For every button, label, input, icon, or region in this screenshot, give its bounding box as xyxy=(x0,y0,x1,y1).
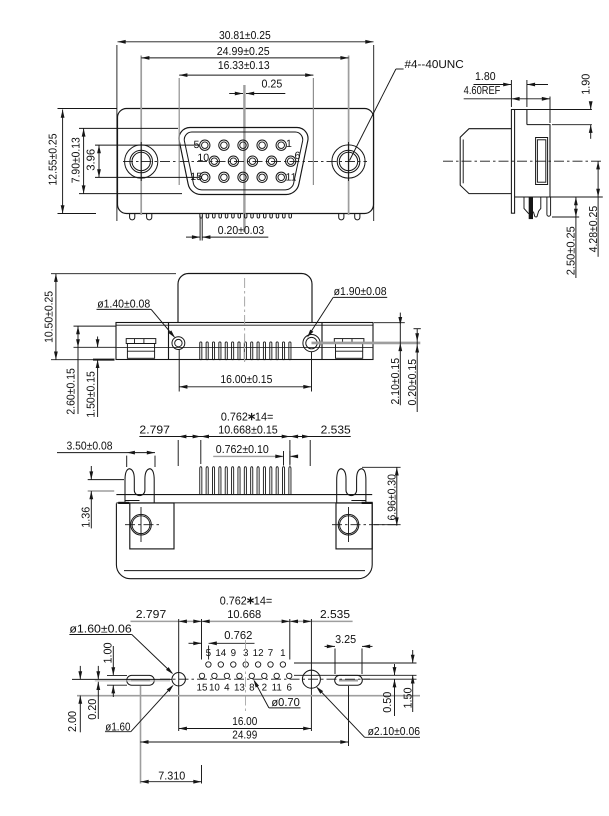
pin contact row1 #4 xyxy=(276,140,286,150)
svg-text:16.33±0.13: 16.33±0.13 xyxy=(218,60,270,72)
dimension 24.99±0.25 xyxy=(141,57,348,59)
pad numbers row 2 xyxy=(197,682,293,693)
dimension 16.00±0.15 xyxy=(179,386,311,388)
chained dimension line 2.797/10.668/2.535 (view 3) xyxy=(139,436,350,438)
side view wide contact pin outline xyxy=(524,197,541,217)
left block hole xyxy=(131,514,152,535)
svg-text:3.96: 3.96 xyxy=(86,149,98,171)
dimension 16.00 (view 4) xyxy=(179,728,312,730)
svg-text:1: 1 xyxy=(280,648,285,659)
svg-text:2: 2 xyxy=(262,682,267,693)
svg-text:7.310: 7.310 xyxy=(158,770,185,782)
gray extension line through left mounting hole (24.99 ref) xyxy=(140,56,142,216)
dimension 1.00 extension lines xyxy=(107,674,127,676)
svg-text:15: 15 xyxy=(197,682,208,693)
left mounting hole #4-40UNC xyxy=(125,145,158,178)
side view contact slot outer rectangle xyxy=(536,138,548,185)
dimension 1.50 (view 4) xyxy=(412,650,414,663)
right mounting hole #4-40UNC xyxy=(332,145,365,178)
dimension 2.50±0.25 extension lines xyxy=(550,196,603,198)
svg-text:0.20: 0.20 xyxy=(87,699,99,720)
top view shell stamped line xyxy=(116,346,373,348)
dimension 2.50±0.25 xyxy=(575,197,577,278)
svg-text:1.36: 1.36 xyxy=(80,507,92,528)
pin contact row2 #0 xyxy=(209,156,219,166)
dimension 1.90 xyxy=(590,102,592,110)
left mounting hole Ø1.60 (footprint) xyxy=(172,673,185,686)
dimension 2.10±0.15 xyxy=(399,313,401,406)
svg-text:30.81±0.25: 30.81±0.25 xyxy=(219,30,271,42)
top view hole Ø1.90 xyxy=(303,335,320,352)
svg-text:12.55±0.25: 12.55±0.25 xyxy=(48,134,60,186)
svg-text:10.50±0.25: 10.50±0.25 xyxy=(43,291,55,343)
dimension 10.50±0.25 extension lines xyxy=(51,273,176,275)
extension through right oval pad center xyxy=(348,686,350,746)
top view shell left stamped edge xyxy=(168,323,170,360)
svg-text:10: 10 xyxy=(209,682,220,693)
svg-text:ø0.70: ø0.70 xyxy=(271,697,299,709)
svg-text:14=: 14= xyxy=(255,411,274,423)
leader for Ø2.10±0.06 xyxy=(365,736,420,738)
extension lines for chained dims (view 3) xyxy=(177,440,179,466)
svg-text:16.00±0.15: 16.00±0.15 xyxy=(220,374,272,386)
svg-text:1.00: 1.00 xyxy=(102,643,114,664)
svg-text:6.96±0.30: 6.96±0.30 xyxy=(386,474,398,521)
svg-text:0.25: 0.25 xyxy=(262,78,283,90)
svg-text:16.00: 16.00 xyxy=(232,716,257,728)
svg-text:1.50: 1.50 xyxy=(403,688,415,709)
svg-text:6: 6 xyxy=(295,150,301,162)
svg-text:4.60REF: 4.60REF xyxy=(464,85,501,97)
side view shell top tab xyxy=(515,110,527,125)
svg-text:9: 9 xyxy=(231,648,236,659)
svg-text:#4--40UNC: #4--40UNC xyxy=(405,59,464,71)
bottom view right block xyxy=(336,503,372,549)
leader for Ø1.60±0.06 xyxy=(69,634,131,636)
left board lock wing (fork) xyxy=(125,469,154,503)
svg-text:2.797: 2.797 xyxy=(139,425,170,437)
dimension 1.50±0.15 xyxy=(97,337,99,348)
front view solder tail comb (15 tails) xyxy=(200,214,292,219)
bottom view solder tail comb (15 tails) xyxy=(200,467,291,495)
chained dimension line 2.797/10.668/2.535 (view 4) xyxy=(131,620,353,622)
left block hole crosshair xyxy=(140,507,142,542)
svg-text:10.668±0.15: 10.668±0.15 xyxy=(218,425,278,437)
svg-text:ø1.90±0.08: ø1.90±0.08 xyxy=(334,286,387,298)
pin contact row1 #3 xyxy=(257,140,267,150)
svg-text:6: 6 xyxy=(286,682,292,693)
pin contact row1 #2 xyxy=(238,140,248,150)
left wing base weld marks xyxy=(118,502,129,504)
dimension 1.80 extension lines xyxy=(510,80,512,107)
extension line through left hole (view 4) xyxy=(178,619,180,731)
top view right board lock tab xyxy=(334,339,364,359)
dimension 4.28±0.25 dim line xyxy=(597,161,599,257)
dimension 6.96±0.30 xyxy=(396,467,398,525)
leader line for Ø1.40 xyxy=(97,308,152,310)
right mounting hole Ø2.10 (footprint) xyxy=(302,670,320,688)
extension line bottom pad row right xyxy=(294,674,417,676)
dimension 12.55±0.25 extension lines xyxy=(58,108,118,110)
svg-text:4: 4 xyxy=(224,682,230,693)
top view flange band inner top line xyxy=(116,324,373,326)
svg-text:8: 8 xyxy=(249,682,255,693)
svg-text:0.762: 0.762 xyxy=(224,630,252,642)
dimension 7.90±0.13 extension lines xyxy=(79,127,178,129)
leader for Ø1.60 xyxy=(105,731,131,733)
front view mounting hooks under body xyxy=(130,214,360,220)
dimension 7.310 xyxy=(141,781,202,783)
dimension 1.50±0.15 extension line xyxy=(93,335,110,337)
dimension 16.33±0.13 xyxy=(179,74,313,76)
dimension 3.25 extension lines xyxy=(334,649,336,675)
dimension 3.50±0.08 extension lines xyxy=(126,456,128,467)
left oval pad xyxy=(127,675,155,685)
dimension 0.20±0.03 xyxy=(186,236,200,238)
svg-text:24.99: 24.99 xyxy=(232,730,257,742)
gray extension through left oval pad center xyxy=(140,686,142,784)
dimension 0.50 xyxy=(394,664,396,675)
svg-text:2.535: 2.535 xyxy=(320,609,350,621)
leader line for Ø1.90 xyxy=(333,296,387,298)
svg-text:11: 11 xyxy=(286,171,297,183)
dimension 2.00 xyxy=(79,666,81,680)
pin contact row2 #1 xyxy=(228,156,238,166)
dimension 1.80 xyxy=(474,84,512,86)
svg-text:5: 5 xyxy=(206,648,212,659)
dimension 0.20 (view 4) xyxy=(97,666,99,680)
gray center line of D-shell insert xyxy=(243,85,245,232)
right oval pad gray core xyxy=(339,679,358,681)
bottom view body inner bottom line xyxy=(124,570,365,572)
svg-text:ø1.40±0.08: ø1.40±0.08 xyxy=(97,298,150,310)
bottom view flange face line xyxy=(116,494,372,496)
svg-text:0.762±0.10: 0.762±0.10 xyxy=(216,444,269,456)
svg-text:1.80: 1.80 xyxy=(475,71,496,83)
dimension 0.762 (view 4) xyxy=(189,642,202,644)
D-shell insert inner outline xyxy=(184,132,302,190)
pin contact row3 #1 xyxy=(219,172,229,182)
hole center line right segment xyxy=(362,678,417,680)
pin contact row2 #4 xyxy=(286,156,296,166)
pin contact row2 #2 xyxy=(247,156,257,166)
dimension 0.762±0.10 (pitch) xyxy=(213,455,283,457)
right oval pad xyxy=(335,675,363,685)
dimension 12.55±0.25 xyxy=(62,110,64,214)
dimension 3.25 xyxy=(325,645,336,647)
dimension 2.10±0.15 extension line xyxy=(374,322,405,324)
dimension 1.36 extension lines xyxy=(88,479,124,481)
svg-text:0.20±0.03: 0.20±0.03 xyxy=(218,225,264,237)
dimension 3.96 extension lines xyxy=(95,144,199,146)
extension line through right hole (view 4) xyxy=(310,619,312,731)
svg-text:1.90: 1.90 xyxy=(581,74,593,95)
side view insulator body xyxy=(515,125,550,197)
svg-text:0.50: 0.50 xyxy=(382,692,394,713)
pad numbers row 1 xyxy=(206,648,286,659)
right wing base weld marks xyxy=(362,502,373,504)
dimension 3.50±0.08 xyxy=(57,452,155,454)
svg-text:2.797: 2.797 xyxy=(136,609,167,621)
dimension 6.96±0.30 extension lines xyxy=(362,466,401,468)
vertical center line (view 4) xyxy=(245,640,247,713)
side view D-shell front face inner line xyxy=(462,140,464,184)
svg-text:24.99±0.25: 24.99±0.25 xyxy=(217,46,270,58)
pin contact row3 #0 xyxy=(200,172,210,182)
svg-text:11: 11 xyxy=(272,682,282,693)
pin contact row3 #4 xyxy=(276,172,286,182)
svg-text:12: 12 xyxy=(253,648,264,659)
right board lock wing (fork) xyxy=(337,469,366,503)
pin contact row2 #3 xyxy=(266,156,276,166)
svg-text:3: 3 xyxy=(243,648,249,659)
dimension 7.310 extension line xyxy=(201,765,203,784)
extension line pad column 1 xyxy=(201,619,203,660)
extension line top pad row right xyxy=(294,662,417,664)
dimension 7.90±0.13 xyxy=(83,128,85,193)
svg-text:ø2.10±0.06: ø2.10±0.06 xyxy=(368,726,420,738)
vertical center line left hole xyxy=(140,142,142,181)
top view vertical center line xyxy=(244,278,246,362)
side view D-shell barrel outline xyxy=(460,129,511,194)
extension line pad column 15 xyxy=(289,619,291,660)
side view right thin pin outline xyxy=(547,197,551,216)
side view flange plate xyxy=(511,110,514,214)
dimension 0.20±0.03 extension lines xyxy=(199,216,201,241)
svg-text:1.50±0.15: 1.50±0.15 xyxy=(85,371,97,418)
hole center line left segment xyxy=(72,678,172,680)
hole center line dash-dot xyxy=(160,678,370,680)
dimension 0.20±0.15 extension tick xyxy=(414,328,421,330)
gray reference line (2.00 ref) xyxy=(77,695,420,697)
dimension 0.25 (insert offset) xyxy=(229,93,243,95)
dimension 1.90 extension lines xyxy=(527,109,592,111)
dimension 24.99 (view 4) xyxy=(140,741,348,743)
dimension 2.60±0.15 extension lines xyxy=(74,325,117,327)
dimension 2.60±0.15 xyxy=(77,326,79,414)
left oval pad gray core xyxy=(131,679,150,681)
dimension 1.00 xyxy=(112,646,114,675)
svg-text:3.50±0.08: 3.50±0.08 xyxy=(67,440,113,452)
front view connector body outline xyxy=(118,109,374,214)
top view hole Ø1.40 xyxy=(172,337,185,350)
dimension 0.20±0.15 xyxy=(416,329,418,412)
svg-text:3.25: 3.25 xyxy=(335,634,356,646)
svg-text:2.10±0.15: 2.10±0.15 xyxy=(390,358,402,405)
right block hole crosshair xyxy=(348,507,350,542)
pin contact row1 #1 xyxy=(219,140,229,150)
dimension 16.00±0.15 extension lines xyxy=(178,350,180,392)
top view flange band xyxy=(116,323,373,360)
svg-text:14: 14 xyxy=(215,648,226,659)
svg-text:15: 15 xyxy=(190,171,202,183)
pad row 1 (pins 5 14 9 3 12 7 1) xyxy=(206,662,286,667)
bottom view body outline xyxy=(116,503,372,578)
right block hole xyxy=(338,514,359,535)
horizontal center line of front view xyxy=(123,160,367,162)
top view solder tail comb (15 tails) xyxy=(200,342,291,360)
pad row 2 (pins 15 10 4 13 8 2 11 6) xyxy=(199,673,292,678)
leader line from #4--40UNC to right mounting hole xyxy=(396,68,404,70)
svg-text:10.668: 10.668 xyxy=(227,609,261,621)
svg-text:2.60±0.15: 2.60±0.15 xyxy=(65,368,77,415)
svg-text:2.00: 2.00 xyxy=(67,711,79,732)
dimension 30.81±0.25 xyxy=(118,41,374,43)
side view contact slot inner rectangle xyxy=(537,140,545,182)
gray extension line through right mounting hole (24.99 ref) xyxy=(348,56,350,216)
dimension 1.36 xyxy=(90,466,92,480)
dimension 3.96 xyxy=(98,145,100,177)
svg-text:7: 7 xyxy=(268,648,273,659)
svg-text:0.20±0.15: 0.20±0.15 xyxy=(407,359,419,406)
vertical center line right hole xyxy=(348,142,350,181)
pin contact row3 #2 xyxy=(238,172,248,182)
svg-text:10: 10 xyxy=(197,152,209,164)
svg-text:13: 13 xyxy=(234,682,245,693)
svg-text:2.535: 2.535 xyxy=(321,425,351,437)
svg-text:ø1.60±0.06: ø1.60±0.06 xyxy=(69,623,131,635)
top view left board lock tab xyxy=(126,339,156,359)
top view shell right stamped edge xyxy=(321,323,323,360)
leader for Ø0.70 xyxy=(269,707,301,709)
side view center line xyxy=(443,160,602,162)
dimension 16.33±0.13 extension lines xyxy=(178,78,180,185)
dimension 4.60REF xyxy=(464,98,512,100)
dimension 10.50±0.25 xyxy=(55,274,57,360)
svg-text:14=: 14= xyxy=(254,595,273,607)
svg-text:7.90±0.13: 7.90±0.13 xyxy=(70,137,82,183)
dimension 4.60REF extension line xyxy=(549,97,551,124)
gray oval-pad center line xyxy=(95,680,170,682)
gray reference line from hole Ø1.90 to right dims xyxy=(312,342,421,345)
svg-text:2.50±0.25: 2.50±0.25 xyxy=(566,226,578,275)
svg-text:4.28±0.25: 4.28±0.25 xyxy=(588,206,600,253)
svg-text:0.762: 0.762 xyxy=(221,411,248,423)
D-shell insert outer outline xyxy=(179,128,308,195)
svg-text:0.762: 0.762 xyxy=(220,595,247,607)
svg-text:1: 1 xyxy=(286,138,292,150)
pin contact row3 #3 xyxy=(257,172,267,182)
top view D-shell hump xyxy=(178,274,312,323)
side view pin 2 (black solder tail) xyxy=(529,197,533,219)
dimension 30.81±0.25 extension lines xyxy=(116,45,118,221)
pin contact row1 #0 xyxy=(200,140,210,150)
bottom view left block xyxy=(130,503,174,549)
bottom view flange second line xyxy=(116,502,372,504)
